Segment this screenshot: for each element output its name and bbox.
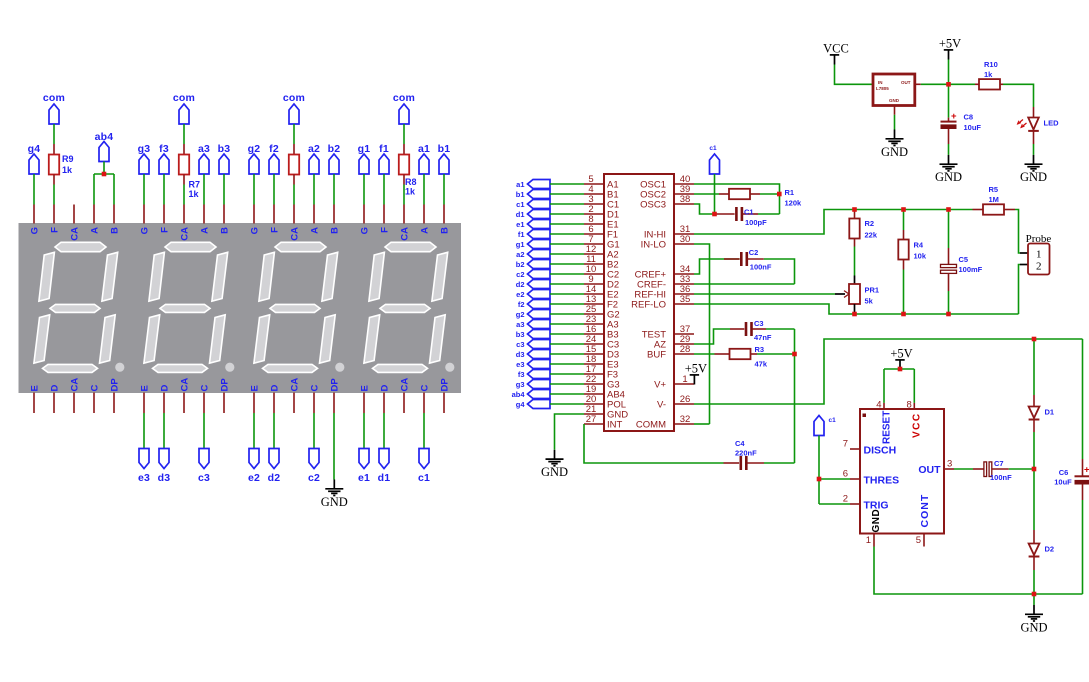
potentiometer PR1 5k — [849, 276, 860, 315]
wire IN-LO pin 30 down to COMM — [694, 244, 710, 424]
wire CREF+ pin 34 jog to C2 — [694, 259, 740, 274]
wire C1 to OSC1 loop — [758, 213, 780, 215]
display pin DP (digit 4) bottom stub — [113, 393, 115, 414]
wire REF-LO pin 35 to bottom rail — [694, 304, 1019, 314]
svg-text:D2: D2 — [1045, 545, 1055, 554]
wire b2 to pin B — [333, 174, 335, 205]
svg-text:d1: d1 — [516, 210, 525, 219]
wire regulator OUT to +5V node — [915, 83, 949, 85]
wire f1 flag to U1 — [550, 233, 584, 235]
U3 pin 3 OUT — [918, 459, 954, 477]
svg-text:R10: R10 — [984, 60, 998, 69]
U1 pin 3 C1 (left) — [584, 194, 619, 210]
wire +5V node down to C8 — [948, 84, 950, 117]
resistor R8 1k — [399, 144, 409, 185]
svg-text:GND: GND — [1020, 620, 1047, 634]
display pin B (digit 4) top stub — [113, 205, 115, 224]
wire display pin to terminal c1 — [423, 413, 425, 449]
U1 pin 38 OSC3 (right) — [640, 194, 694, 210]
wire d1 flag to U1 — [550, 213, 584, 215]
wire display pin to terminal d3 — [163, 413, 165, 449]
wire resistor to pin CA (digit 3) — [183, 185, 185, 205]
svg-text:a2: a2 — [516, 250, 524, 259]
ground GND (U1) — [541, 450, 568, 479]
svg-text:g4: g4 — [516, 400, 526, 409]
svg-text:c3: c3 — [198, 472, 210, 484]
terminal e2 (U1 input flag) — [516, 290, 550, 299]
label R9 value 1k — [62, 154, 74, 175]
svg-text:C: C — [90, 385, 101, 392]
terminal g3 (U1 input flag) — [516, 380, 550, 389]
U3 pin 6 THRES — [843, 469, 899, 487]
wire display pin to terminal d2 — [273, 413, 275, 449]
svg-text:CA: CA — [70, 227, 81, 241]
terminal b2 (U1 input flag) — [516, 260, 550, 269]
display pin G (digit 3) top stub — [143, 205, 145, 224]
U1 pin 36 REF-HI (right) — [634, 284, 694, 300]
svg-text:27: 27 — [586, 414, 597, 425]
ground GND (regulator) — [881, 130, 908, 159]
svg-text:6: 6 — [843, 469, 848, 480]
junction 555 +5V node — [898, 367, 903, 372]
svg-text:Probe: Probe — [1026, 233, 1052, 245]
svg-text:D1: D1 — [1045, 408, 1055, 417]
junction rail R4 top — [901, 207, 906, 212]
U1 pin 15 D3 (left) — [584, 344, 619, 360]
wire a2 to pin A — [313, 174, 315, 205]
U1 pin 16 B3 (left) — [584, 324, 619, 340]
svg-text:G: G — [250, 227, 261, 234]
resistor R2 22k — [849, 210, 859, 247]
svg-text:22k: 22k — [865, 231, 878, 240]
svg-text:B: B — [220, 227, 231, 234]
U1 pin 19 AB4 (left) — [584, 384, 625, 400]
U3 pin 5 CONT — [916, 494, 931, 547]
svg-text:c2: c2 — [516, 270, 524, 279]
svg-text:B: B — [440, 227, 451, 234]
terminal ab4 (U1 input flag) — [512, 390, 550, 399]
svg-text:7: 7 — [843, 439, 848, 450]
svg-text:F: F — [270, 227, 281, 233]
U3 pin 1 GND — [866, 509, 882, 547]
svg-text:THRES: THRES — [864, 475, 900, 487]
power VCC terminal — [823, 42, 849, 65]
LED D3 indicator — [1018, 107, 1039, 155]
svg-text:CA: CA — [290, 227, 301, 241]
wire C7 node to D2 — [1033, 469, 1035, 530]
wire c3 flag to U1 — [550, 343, 584, 345]
terminal com (digit 2) — [283, 92, 305, 124]
svg-text:g3: g3 — [516, 380, 525, 389]
terminal b2 (display) — [328, 143, 341, 174]
diode D1 — [1029, 395, 1040, 432]
svg-text:120k: 120k — [785, 199, 803, 208]
terminal a2 (U1 input flag) — [516, 250, 550, 259]
wire diode rail down from V- line — [1033, 339, 1035, 395]
svg-text:D: D — [160, 385, 171, 392]
U1 pin 2 D1 (left) — [584, 204, 619, 220]
svg-text:d3: d3 — [158, 472, 171, 484]
wire U1 GND pin 21 to ground — [555, 414, 585, 450]
display pin G (digit 1) top stub — [363, 205, 365, 224]
svg-text:CA: CA — [400, 378, 411, 392]
U3 pin 2 TRIG — [843, 494, 889, 512]
display pin CA (digit 4) bottom stub — [73, 393, 75, 414]
svg-text:2: 2 — [1036, 261, 1042, 273]
wire COMM pin 32 — [694, 423, 710, 425]
display pin F (digit 4) top stub — [53, 205, 55, 224]
svg-text:b2: b2 — [516, 260, 525, 269]
wire f1 to pin F — [383, 174, 385, 205]
ground GND (LED) — [1020, 155, 1047, 184]
U1 pin 6 F1 (left) — [584, 224, 618, 240]
svg-text:R5: R5 — [989, 185, 999, 194]
svg-text:8: 8 — [907, 400, 912, 411]
terminal f2 (U1 input flag) — [518, 300, 550, 309]
svg-text:A: A — [310, 227, 321, 234]
svg-text:COMM: COMM — [636, 420, 666, 431]
svg-text:com: com — [43, 92, 65, 104]
wire a2 flag to U1 — [550, 253, 584, 255]
terminal g4 (U1 input flag) — [516, 400, 550, 409]
PR1 wiper arrow — [835, 291, 849, 298]
U1 pin 21 GND (left) — [584, 404, 628, 420]
ground GND (display) — [321, 480, 348, 509]
wire BUF pin 28 to R3 — [694, 353, 715, 355]
display pin B (digit 1) top stub — [443, 205, 445, 224]
wire display pin to terminal e1 — [363, 413, 365, 449]
svg-text:+: + — [951, 111, 957, 122]
svg-text:+5V: +5V — [685, 362, 707, 376]
capacitor C4 220nF — [724, 456, 765, 470]
U1 pin 33 CREF- (right) — [637, 274, 694, 290]
junction C7/D1/D2 node — [1032, 467, 1037, 472]
U1 pin 9 D2 (left) — [584, 274, 619, 290]
svg-text:g1: g1 — [516, 240, 525, 249]
svg-text:CA: CA — [400, 227, 411, 241]
label R8 value 1k — [405, 177, 417, 197]
display pin DP (digit 3) bottom stub — [223, 393, 225, 414]
U1 pin 31 IN-HI (right) — [644, 224, 694, 240]
wire R3 to integrator node — [757, 353, 795, 355]
resistor R10 1k — [975, 79, 1003, 89]
wire b1 flag to U1 — [550, 193, 584, 195]
IC U1 ADC body — [604, 174, 674, 431]
svg-text:f2: f2 — [518, 300, 525, 309]
resistor R7 1k — [179, 144, 189, 185]
svg-text:DP: DP — [110, 378, 121, 392]
svg-text:GND: GND — [871, 509, 882, 533]
svg-text:C3: C3 — [754, 319, 764, 328]
svg-text:V+: V+ — [654, 380, 666, 391]
svg-text:RESET: RESET — [882, 411, 893, 444]
wire f3 to pin F — [163, 174, 165, 205]
terminal c1 (555 input flag) — [814, 416, 836, 436]
svg-text:e3: e3 — [516, 360, 524, 369]
svg-text:CA: CA — [180, 378, 191, 392]
wire ab4 flag to U1 — [550, 393, 584, 395]
svg-text:com: com — [393, 92, 415, 104]
terminal e2 (display) — [248, 449, 260, 485]
display pin E (digit 1) bottom stub — [363, 393, 365, 414]
svg-text:38: 38 — [680, 194, 691, 205]
svg-text:OUT: OUT — [918, 464, 941, 476]
svg-text:A: A — [200, 227, 211, 234]
U1 pin 35 REF-LO (right) — [631, 294, 694, 310]
wire C3 to integrator node — [766, 328, 795, 330]
svg-text:OSC3: OSC3 — [640, 200, 666, 211]
terminal b1 (display) — [438, 143, 451, 174]
wire g1 to pin G — [363, 174, 365, 205]
svg-text:C4: C4 — [735, 439, 745, 448]
regulator U2 L7805 body — [873, 74, 915, 106]
svg-text:DP: DP — [330, 378, 341, 392]
U3 pin 7 DISCH — [843, 439, 896, 457]
svg-text:f3: f3 — [518, 370, 525, 379]
junction rail C5 top — [946, 207, 951, 212]
svg-text:1: 1 — [1036, 249, 1042, 261]
svg-text:CA: CA — [180, 227, 191, 241]
display DS1 body (4-digit 7-segment) — [19, 223, 462, 393]
svg-text:30: 30 — [680, 234, 691, 245]
U1 pin 26 V- (right) — [657, 394, 694, 410]
U1 pin 22 G3 (left) — [584, 374, 620, 390]
terminal d1 (display) — [378, 449, 391, 485]
display pin A (digit 2) top stub — [313, 205, 315, 224]
junction rail C5 bottom — [946, 312, 951, 317]
svg-text:1k: 1k — [62, 165, 73, 175]
display pin B (digit 2) top stub — [333, 205, 335, 224]
display digit 2 segments — [254, 242, 345, 372]
terminal f3 (display) — [159, 143, 169, 174]
svg-text:10k: 10k — [914, 252, 927, 261]
wire right edge rail down to C6 — [1082, 339, 1084, 459]
capacitor C6 10uF electrolytic — [1075, 459, 1089, 500]
svg-text:D: D — [270, 385, 281, 392]
svg-text:c1: c1 — [516, 200, 524, 209]
wire com to resistor (digit 2) — [293, 124, 295, 144]
resistor R3 47k — [715, 349, 758, 359]
svg-text:GND: GND — [321, 495, 348, 509]
svg-text:C8: C8 — [964, 113, 974, 122]
svg-text:D: D — [50, 385, 61, 392]
U1 pin 14 E2 (left) — [584, 284, 619, 300]
U1 pin 39 OSC2 (right) — [640, 184, 694, 200]
terminal c2 (display) — [308, 449, 320, 485]
wire e1 flag to U1 — [550, 223, 584, 225]
wire C4 to integrator node — [764, 462, 795, 464]
svg-text:10uF: 10uF — [1054, 478, 1072, 487]
wire bottom rail to Probe pin 2 — [1019, 265, 1021, 315]
display pin F (digit 3) top stub — [163, 205, 165, 224]
capacitor C3 47nF — [730, 322, 766, 336]
wire D2 to ground rail — [1033, 570, 1035, 594]
junction c1/OSC3/C1 node — [712, 212, 717, 217]
wire d2 flag to U1 — [550, 283, 584, 285]
display pin D (digit 1) bottom stub — [383, 393, 385, 414]
display pin E (digit 2) bottom stub — [253, 393, 255, 414]
terminal a1 (display) — [418, 143, 430, 174]
terminal g1 (display) — [358, 143, 371, 174]
power +5V (555) — [890, 347, 912, 370]
svg-text:e2: e2 — [516, 290, 524, 299]
terminal a1 (U1 input flag) — [516, 180, 550, 189]
terminal g2 (U1 input flag) — [516, 310, 550, 319]
U1 pin 24 C3 (left) — [584, 334, 619, 350]
svg-text:DISCH: DISCH — [864, 445, 897, 457]
svg-text:B: B — [110, 227, 121, 234]
wire IN-HI pin 31 to divider rail — [694, 210, 973, 235]
svg-text:GND: GND — [541, 465, 568, 479]
resistor R (digit 2, unlabeled) 1k — [289, 144, 299, 185]
svg-text:GND: GND — [881, 145, 908, 159]
U1 pin 30 IN-LO (right) — [641, 234, 694, 250]
svg-text:R8: R8 — [405, 177, 417, 187]
wire C7 to diode node — [1009, 468, 1034, 470]
display pin C (digit 1) bottom stub — [423, 393, 425, 414]
terminal f3 (U1 input flag) — [518, 370, 550, 379]
wire REF-HI pin 36 to PR1 wiper — [694, 293, 835, 295]
U1 pin 8 E1 (left) — [584, 214, 619, 230]
display pin CA (digit 3) bottom stub — [183, 393, 185, 414]
svg-text:C7: C7 — [994, 459, 1004, 468]
power +5V at V+ pin 1 — [685, 362, 707, 385]
svg-text:c1: c1 — [418, 472, 430, 484]
display pin C (digit 4) bottom stub — [93, 393, 95, 414]
svg-text:g2: g2 — [516, 310, 525, 319]
terminal com (digit 3) — [173, 92, 195, 124]
terminal com (digit 1) — [393, 92, 415, 124]
junction V- rail / D1 — [1032, 337, 1037, 342]
terminal g2 (display) — [248, 143, 261, 174]
capacitor C1 100pF — [715, 207, 759, 221]
svg-text:VCC: VCC — [823, 42, 849, 56]
wire R1 to OSC1 loop — [760, 193, 780, 195]
wire resistor to pin CA (digit 2) — [293, 185, 295, 205]
wire g2 to pin G — [253, 174, 255, 205]
wire 555 GND to ground rail — [874, 547, 1083, 595]
U3 pin 8 VCC — [907, 400, 923, 439]
wire R9 to pin F — [53, 185, 55, 205]
ground GND (C8) — [935, 155, 962, 184]
terminal f2 (display) — [269, 143, 279, 174]
svg-text:3: 3 — [947, 459, 952, 470]
display pin CA (digit 4) top stub — [73, 205, 75, 224]
svg-text:e3: e3 — [138, 472, 150, 484]
label R7 value 1k — [189, 180, 201, 200]
svg-text:GND: GND — [1020, 170, 1047, 184]
wire b3 flag to U1 — [550, 333, 584, 335]
svg-text:+5V: +5V — [939, 37, 961, 51]
resistor R4 10k — [898, 210, 908, 315]
U1 pin 23 A3 (left) — [584, 314, 619, 330]
terminal b3 (U1 input flag) — [516, 330, 550, 339]
svg-text:C1: C1 — [744, 208, 754, 217]
wire b2 flag to U1 — [550, 263, 584, 265]
svg-text:V-: V- — [657, 400, 666, 411]
svg-text:CONT: CONT — [919, 494, 931, 528]
U1 pin 7 G1 (left) — [584, 234, 620, 250]
U1 pin 20 POL (left) — [584, 394, 626, 410]
wire AZ pin 29 jog to C3 — [694, 329, 730, 344]
power +5V rail terminal — [939, 37, 961, 60]
wire integrator vertical node — [794, 329, 796, 463]
display pin DP (digit 2) bottom stub — [333, 393, 335, 414]
wire a3 flag to U1 — [550, 323, 584, 325]
svg-text:a3: a3 — [516, 320, 524, 329]
display pin F (digit 2) top stub — [273, 205, 275, 224]
terminal d2 (U1 input flag) — [516, 280, 550, 289]
svg-text:d2: d2 — [516, 280, 525, 289]
wire display pin to terminal c3 — [203, 413, 205, 449]
svg-text:IN-LO: IN-LO — [641, 240, 666, 251]
wire e2 flag to U1 — [550, 293, 584, 295]
wire f3 flag to U1 — [550, 373, 584, 375]
svg-text:100pF: 100pF — [745, 218, 767, 227]
display pin G (digit 4) top stub — [33, 205, 35, 224]
svg-text:10uF: 10uF — [964, 123, 982, 132]
svg-text:100nF: 100nF — [750, 263, 772, 272]
regulator GND pin wire — [894, 106, 896, 130]
capacitor C8 10uF electrolytic — [941, 111, 958, 155]
wire com to resistor (digit 1) — [403, 124, 405, 144]
terminal com (digit 4) — [43, 92, 65, 124]
svg-text:OUT: OUT — [901, 80, 911, 85]
terminal d3 (display) — [158, 449, 171, 485]
display pin A (digit 1) top stub — [423, 205, 425, 224]
U1 pin 17 F3 (left) — [584, 364, 618, 380]
terminal b3 (display) — [218, 143, 231, 174]
capacitor C2 100nF — [724, 252, 764, 266]
junction ab4 node — [102, 172, 107, 177]
svg-text:26: 26 — [680, 394, 691, 405]
terminal e1 (U1 input flag) — [516, 220, 550, 229]
svg-text:e2: e2 — [248, 472, 260, 484]
U1 pin 10 C2 (left) — [584, 264, 619, 280]
terminal e3 (U1 input flag) — [516, 360, 550, 369]
svg-text:E: E — [30, 385, 41, 391]
U3 pin 4 RESET — [876, 400, 892, 445]
svg-text:5: 5 — [916, 535, 921, 546]
U1 pin 13 F2 (left) — [584, 294, 618, 310]
display digit 3 segments — [144, 242, 235, 372]
wire +5V to RESET and VCC pins — [884, 369, 914, 403]
display pin G (digit 2) top stub — [253, 205, 255, 224]
svg-text:47k: 47k — [755, 360, 768, 369]
display pin C (digit 2) bottom stub — [313, 393, 315, 414]
svg-text:C5: C5 — [959, 255, 969, 264]
U1 pin 5 A1 (left) — [584, 174, 619, 190]
wire OSC1 pin 40 loop — [694, 184, 780, 214]
svg-text:c1: c1 — [709, 145, 717, 152]
svg-text:c1: c1 — [829, 417, 837, 424]
wire display pin to terminal d1 — [383, 413, 385, 449]
wire a3 to pin A — [203, 174, 205, 205]
resistor R9 1k — [49, 144, 59, 185]
svg-text:32: 32 — [680, 414, 691, 425]
terminal b1 (U1 input flag) — [516, 190, 550, 199]
svg-text:E: E — [250, 385, 261, 391]
svg-text:ab4: ab4 — [512, 390, 526, 399]
svg-text:d1: d1 — [378, 472, 391, 484]
capacitor C7 100nF — [973, 462, 1009, 477]
svg-text:1M: 1M — [989, 195, 999, 204]
wire OUT pin 3 to C7 — [954, 468, 973, 470]
U1 pin 28 BUF (right) — [647, 344, 694, 360]
wire c2 flag to U1 — [550, 273, 584, 275]
svg-text:G: G — [360, 227, 371, 234]
terminal c3 (U1 input flag) — [516, 340, 550, 349]
